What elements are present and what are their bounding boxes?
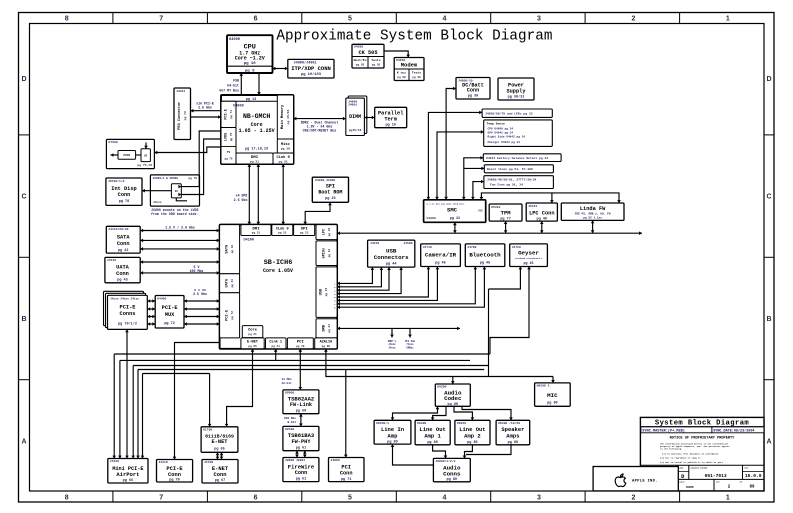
svg-text:CPU U4940 pg 34: CPU U4940 pg 34: [488, 127, 514, 130]
border zone column dividers top: [112, 13, 114, 24]
wire trunk L4 to PCI conn: [345, 370, 347, 458]
svg-text:pg 80: pg 80: [427, 441, 438, 445]
svg-text:pg 60: pg 60: [296, 409, 307, 413]
svg-text:J2000 J2001: J2000 J2001: [285, 458, 305, 462]
svg-text:DIMM: DIMM: [349, 114, 361, 120]
apple logo box: [593, 467, 678, 491]
wire mux chipA output: [111, 154, 119, 156]
svg-text:2.5 Gbs: 2.5 Gbs: [198, 106, 212, 110]
SATA connector J4110: [106, 226, 140, 253]
line out amp 1 U6300: [415, 420, 450, 445]
svg-text:U6240/1: U6240/1: [376, 421, 389, 425]
svg-text:pg 23: pg 23: [300, 232, 309, 235]
ICH UATA cell: [220, 274, 240, 293]
svg-text:pg 44: pg 44: [386, 262, 397, 266]
svg-text:U4100: U4100: [244, 239, 255, 243]
wire LVDS chip to int disp conn: [142, 190, 171, 192]
svg-text:J4000: J4000: [331, 458, 340, 462]
wire mux chipA to chipB: [136, 154, 141, 156]
svg-text:LPC: LPC: [322, 229, 326, 235]
svg-text:TV: TV: [227, 151, 231, 154]
PEG connector J4C01: [174, 88, 191, 140]
svg-text:U2100: U2100: [285, 427, 294, 431]
wire LPC conn to LPC bus: [541, 221, 543, 233]
wire NB to display mux: [154, 147, 221, 153]
svg-text:100 Mbs: 100 Mbs: [190, 269, 204, 273]
wire NB LVDS cell to LVDS chip upper: [181, 131, 221, 187]
svg-text:pg 80: pg 80: [547, 402, 558, 406]
svg-text:D: D: [766, 76, 771, 83]
LVDS inner chip: [171, 184, 181, 198]
SMB bus from ICH: [337, 327, 460, 329]
svg-text:pg 43: pg 43: [117, 279, 128, 283]
svg-text:pg 21: pg 21: [250, 159, 259, 163]
svg-text:Bluetooth: Bluetooth: [469, 251, 501, 258]
svg-text:CKE/ODT/RESET Bus: CKE/ODT/RESET Bus: [303, 128, 337, 132]
svg-text:J4500: J4500: [403, 241, 412, 245]
svg-text:CK 505: CK 505: [358, 50, 377, 56]
svg-text:pg 23: pg 23: [328, 324, 331, 333]
wire LVDS chip loop: [176, 198, 187, 201]
trunk line L3: [133, 365, 488, 367]
svg-text:pg 23: pg 23: [325, 288, 328, 297]
svg-text:AirPort: AirPort: [116, 471, 139, 478]
svg-text:SMC: SMC: [447, 207, 458, 214]
svg-text:Conns: Conns: [443, 470, 461, 477]
svg-text:pg 19: pg 19: [281, 147, 290, 151]
scale sheet row: [676, 479, 678, 491]
svg-text:pg 13: pg 13: [246, 98, 257, 102]
wires FW phy to connector: [296, 451, 298, 458]
svg-text:pg 61: pg 61: [296, 477, 307, 481]
wire trunk to ICH CLnk1: [275, 349, 277, 361]
svg-text:pg 21: pg 21: [248, 333, 257, 336]
svg-text:Codec: Codec: [444, 395, 462, 402]
svg-text:U6350: U6350: [457, 421, 466, 425]
svg-text:4: 4: [443, 494, 447, 501]
svg-text:J4710: J4710: [423, 245, 432, 249]
wire speaker amps to audio conns: [466, 445, 511, 455]
svg-text:667 MT Bus: 667 MT Bus: [219, 89, 239, 93]
svg-text:Amps: Amps: [506, 432, 519, 439]
svg-text:U4300,J4300: U4300,J4300: [315, 178, 335, 182]
svg-text:Conn: Conn: [117, 241, 130, 247]
svg-text:SATA: SATA: [225, 244, 229, 254]
svg-text:J4C01: J4C01: [176, 89, 185, 93]
svg-text:DRAWING NUMBER: DRAWING NUMBER: [691, 466, 709, 469]
svg-text:J4888/49/50/51, J7777/30/34: J4888/49/50/51, J7777/30/34: [487, 178, 537, 182]
ethernet connector J1700: [202, 460, 238, 484]
svg-text:MIC: MIC: [547, 392, 558, 399]
DIMM socket stacked: [348, 96, 367, 133]
LVDS transmitter box U6800: [150, 175, 199, 206]
svg-text:64-bit: 64-bit: [227, 84, 239, 88]
ICH SATA cell: [220, 225, 240, 274]
svg-text:U6200: U6200: [437, 385, 446, 389]
svg-text:pg 45: pg 45: [480, 262, 491, 266]
svg-text:Core 1.05V: Core 1.05V: [263, 268, 293, 274]
svg-text:J6000/1/2/3: J6000/1/2/3: [435, 459, 455, 463]
wire NB to DIMM memory bus: [294, 118, 346, 120]
svg-text:to the following:: to the following:: [660, 448, 682, 451]
svg-text:pg 75: pg 75: [230, 132, 233, 141]
svg-text:J4950/60/70 and LEDs pg 33: J4950/60/70 and LEDs pg 33: [485, 111, 533, 115]
svg-text:UATA: UATA: [116, 265, 130, 271]
svg-text:J4xxx: J4xxx: [153, 201, 162, 204]
firewire phy TSB81BA3 U2100: [283, 426, 319, 450]
firewire link TSB82AA2 U2000: [283, 390, 319, 414]
svg-text:Linda FW: Linda FW: [580, 206, 606, 212]
ICH GPIOs cell: [316, 241, 337, 266]
ICH DMI cell: [241, 225, 271, 236]
wire SPI ROM to ICH: [305, 202, 330, 224]
power supply block: [498, 78, 534, 100]
svg-text:pg 43: pg 43: [231, 279, 234, 288]
svg-text:U5310: U5310: [491, 205, 500, 209]
svg-text:B-S11: B-S11: [287, 421, 296, 424]
svg-text:pg 70: pg 70: [296, 345, 305, 348]
svg-text:J6800/1 & U6800: J6800/1 & U6800: [153, 176, 179, 180]
PCI-E mux U4400: [155, 296, 184, 329]
wire codec to line out amp 2: [454, 406, 472, 420]
azalia audio bus: [326, 349, 553, 377]
svg-text:pg 21: pg 21: [271, 345, 280, 348]
svg-text:Charger U4943 pg 33: Charger U4943 pg 33: [488, 140, 521, 144]
display mux inner chip A: [118, 151, 136, 160]
svg-text:7: 7: [159, 15, 163, 22]
trunk line L1: [114, 353, 490, 355]
svg-text:Geyser: Geyser: [518, 250, 539, 257]
svg-text:1: 1: [726, 15, 730, 22]
wire CK505 to modem: [384, 51, 408, 58]
svg-text:C: C: [21, 194, 26, 201]
svg-text:GPIOs: GPIOs: [322, 248, 326, 259]
wire geyser usb 1: [489, 267, 521, 290]
svg-text:051-7013: 051-7013: [705, 473, 727, 479]
wire Linda FW to LPC bus: [592, 220, 594, 233]
LPC bus line: [337, 232, 642, 234]
svg-text:K осс: K осс: [397, 71, 406, 75]
ICH PCI cell: [287, 338, 313, 349]
svg-text:pg 40: pg 40: [328, 227, 331, 236]
svg-text:7: 7: [159, 494, 163, 501]
Linda FW block: [561, 203, 624, 220]
svg-text:J4601: J4601: [348, 103, 357, 107]
svg-text:89: 89: [749, 486, 755, 490]
wires ICH USB ports to devices: [337, 267, 372, 283]
camera/IR block J4710: [421, 244, 461, 267]
svg-text:2: 2: [631, 15, 635, 22]
svg-text:33 MHz: 33 MHz: [282, 378, 293, 381]
aux connectors strip J4950: [482, 109, 552, 117]
svg-text:pg 74: pg 74: [183, 111, 187, 120]
SMC block U4900: [424, 200, 486, 223]
DC/Batt connector J4800: [456, 78, 490, 100]
svg-text:REV.: REV.: [745, 466, 750, 469]
NB-GMCH DMI cell: [236, 153, 273, 164]
ethernet chip 8111B U1700: [201, 427, 238, 453]
svg-text:SCALE: SCALE: [679, 481, 686, 484]
PCI-E connector J4310: [157, 460, 193, 483]
PCI connector J4000: [329, 458, 365, 482]
svg-text:pg 30/31: pg 30/31: [508, 94, 525, 99]
svg-text:B: B: [21, 316, 26, 323]
svg-text:pg 80: pg 80: [508, 441, 519, 445]
svg-text:ITP/XDP CONN: ITP/XDP CONN: [291, 65, 331, 72]
ICH core cell: [242, 326, 262, 338]
svg-text:SYS: SYS: [478, 210, 483, 213]
ICH E-NET cell: [241, 338, 264, 349]
svg-text:1.5 V / 3.0 Gbs: 1.5 V / 3.0 Gbs: [165, 225, 195, 229]
svg-text:U4944 battery balance Select: U4944 battery balance Select pg 34: [486, 156, 548, 160]
wire y342 to PCI-E conn bottom row: [175, 343, 220, 460]
modem block: [394, 58, 424, 81]
svg-text:pg 78: pg 78: [119, 200, 130, 204]
svg-text:B: B: [766, 316, 771, 323]
svg-text:J4210: J4210: [370, 241, 379, 245]
wire line in amp to codec: [393, 406, 438, 420]
svg-text:pg 72: pg 72: [164, 322, 175, 326]
svg-text:PCI: PCI: [341, 464, 351, 470]
svg-text:Conn: Conn: [118, 192, 131, 198]
svg-text:A: A: [766, 438, 771, 445]
svg-text:Conn: Conn: [168, 472, 181, 478]
svg-text:PCI-E: PCI-E: [162, 305, 178, 311]
SMB tap 1: [391, 328, 393, 337]
svg-text:FW-PHY: FW-PHY: [291, 439, 311, 445]
svg-text:U4000: U4000: [229, 38, 240, 42]
wire SMC to LPC bus: [454, 222, 456, 233]
NB-GMCH northbridge U4000 outer: [221, 95, 294, 164]
svg-text:J4140: J4140: [107, 258, 116, 262]
svg-text:U6290 2: U6290 2: [537, 384, 550, 388]
svg-text:MUX: MUX: [165, 312, 175, 318]
clock generator CK 505: [352, 44, 384, 68]
wire ICH PCI to FW-Link: [299, 349, 301, 390]
wire audio bus to codec: [452, 377, 454, 385]
svg-text:Reset lines pg 51, 57-100: Reset lines pg 51, 57-100: [487, 167, 533, 171]
svg-text:U4200: U4200: [354, 45, 363, 49]
svg-text:pg 67: pg 67: [215, 479, 226, 483]
svg-text:2.5 Gbs: 2.5 Gbs: [193, 292, 207, 296]
svg-text:Right Side U4942 pg 34: Right Side U4942 pg 34: [488, 135, 526, 139]
svg-text:J4xxx J4xxx J41xx: J4xxx J4xxx J41xx: [110, 298, 139, 301]
svg-text:J4700: J4700: [467, 245, 476, 249]
parallel term block: [375, 107, 407, 127]
svg-text:32-bit: 32-bit: [282, 381, 293, 385]
sync master row: [641, 427, 712, 433]
svg-text:SYNC_MASTER:(P+_M2B): SYNC_MASTER:(P+_M2B): [642, 429, 685, 434]
svg-text:pg 70/1/2: pg 70/1/2: [118, 322, 137, 327]
svg-text:Approximate System Block Diagr: Approximate System Block Diagram: [276, 29, 552, 45]
svg-text:3: 3: [537, 494, 541, 501]
svg-text:U4000: U4000: [233, 105, 244, 109]
wires UATA conn to ICH: [140, 261, 219, 263]
svg-text:Modem: Modem: [401, 62, 418, 69]
svg-text:6: 6: [254, 15, 258, 22]
NB-GMCH top strip pg 13: [221, 100, 277, 102]
bluetooth block J4700: [465, 244, 505, 267]
svg-text:J4xxx: J4xxx: [388, 347, 396, 350]
svg-text:Host/In: Host/In: [354, 58, 367, 62]
mini PCI-E airport J4330: [108, 459, 148, 484]
svg-text:FSB: FSB: [233, 79, 239, 83]
svg-text:pg 30: pg 30: [468, 94, 479, 98]
svg-text:U7500: U7500: [109, 140, 118, 144]
NB-GMCH left cell PCI-E: [221, 101, 236, 127]
svg-text:USB: USB: [319, 288, 323, 295]
svg-text:pg 21: pg 21: [252, 232, 261, 235]
svg-text:2.5 Gbs: 2.5 Gbs: [234, 198, 248, 202]
trunk line L4: [138, 369, 484, 371]
svg-text:pg 20: pg 20: [356, 63, 365, 66]
speaker amps U6400: [496, 420, 530, 445]
svg-text:APPLE IND.: APPLE IND.: [632, 480, 658, 484]
ICH CLink 0 cell: [272, 225, 293, 236]
svg-text:Tests: Tests: [412, 71, 421, 75]
svg-text:pg 76: pg 76: [225, 158, 233, 161]
wire codec to speaker amps: [462, 406, 511, 420]
svg-text:2: 2: [631, 494, 635, 501]
SMB tap 2: [409, 328, 411, 337]
svg-text:Temp Sense: Temp Sense: [487, 121, 505, 125]
trunk drops to Mini PCI-E AirPort: [113, 354, 115, 459]
NB-GMCH main memory cell: [277, 95, 293, 139]
svg-text:pg 80: pg 80: [467, 441, 478, 445]
svg-text:pg 90: pg 90: [397, 76, 406, 79]
svg-text:SMBus: SMBus: [406, 347, 414, 350]
svg-text:pg 24: pg 24: [328, 249, 331, 258]
svg-text:J4110/20/30: J4110/20/30: [108, 227, 128, 231]
svg-text:pg 21: pg 21: [278, 232, 287, 235]
TPM block U5310: [489, 204, 522, 221]
svg-text:pg 72: pg 72: [231, 311, 234, 320]
NB-GMCH CLink 0 cell: [273, 153, 294, 164]
svg-text:SB-ICH6: SB-ICH6: [264, 259, 293, 267]
firewire connector J2000: [283, 458, 319, 482]
svg-text:SYNC_DATE:08/23/2004: SYNC_DATE:08/23/2004: [713, 429, 754, 434]
svg-text:pg 80: pg 80: [387, 440, 398, 444]
svg-text:pg 70: pg 70: [169, 479, 180, 483]
ICH AZALIA cell: [315, 338, 337, 349]
svg-text:NOTICE OF PROPRIETARY PROPERTY: NOTICE OF PROPRIETARY PROPERTY: [670, 437, 736, 441]
svg-text:PCI-E: PCI-E: [120, 305, 136, 311]
wire SMC pin2 to temp sensors: [437, 132, 484, 200]
apple logo: [615, 474, 626, 487]
wire CLink NB to ICH: [282, 164, 284, 225]
svg-text:IDE PS, SMB 1, 00, FW: IDE PS, SMB 1, 00, FW: [575, 212, 611, 215]
svg-text:pg 65: pg 65: [248, 345, 257, 348]
svg-text:J6700/1/2: J6700/1/2: [108, 179, 125, 183]
svg-text:LPC Conn: LPC Conn: [529, 210, 554, 216]
svg-text:pg 77: pg 77: [500, 217, 511, 221]
svg-text:pg 71: pg 71: [341, 478, 352, 482]
svg-text:pg 16: pg 16: [385, 124, 396, 128]
svg-text:Conn: Conn: [295, 470, 307, 476]
svg-text:pg 45: pg 45: [524, 261, 534, 265]
temp sensors block: [484, 120, 553, 146]
svg-text:pg 15/16: pg 15/16: [286, 110, 290, 125]
LPC connector J5101: [526, 203, 557, 221]
svg-text:x4 DMI: x4 DMI: [236, 194, 248, 198]
wire amp1 to audio conns: [433, 445, 446, 459]
svg-text:Tests: Tests: [371, 58, 380, 62]
svg-text:pg 80: pg 80: [322, 345, 331, 348]
svg-text:J4310: J4310: [159, 460, 168, 464]
svg-text:pg 20: pg 20: [372, 63, 381, 66]
ICH CLnk 1 cell: [266, 338, 287, 349]
svg-text:800 Mbs: 800 Mbs: [284, 416, 296, 420]
svg-text:Boot ROM: Boot ROM: [318, 189, 342, 195]
svg-text:J5101: J5101: [528, 204, 537, 208]
svg-text:Conns: Conns: [120, 311, 136, 317]
svg-text:GPU U4941 pg 34: GPU U4941 pg 34: [488, 132, 514, 135]
svg-text:CLnk 1: CLnk 1: [269, 340, 282, 345]
wire SMC pin5 to fan conns: [473, 182, 484, 200]
svg-text:pg 33: pg 33: [450, 216, 460, 220]
wire SMC pin4 to battery balance and reset strips: [464, 158, 484, 200]
svg-text:pg 80: pg 80: [448, 403, 459, 407]
svg-text:A: A: [21, 438, 26, 445]
svg-text:3: 3: [537, 15, 541, 22]
svg-text:U4400: U4400: [157, 296, 166, 300]
svg-text:Trackpad &/Keyboard 2: Trackpad &/Keyboard 2: [515, 257, 543, 260]
svg-text:pg 61: pg 61: [296, 446, 307, 450]
svg-text:Conn: Conn: [467, 88, 479, 94]
svg-text:6: 6: [254, 494, 258, 501]
svg-text:15.0.0: 15.0.0: [745, 473, 762, 479]
svg-text:pg 17,18,19: pg 17,18,19: [245, 148, 268, 152]
line out amp 2 U6350: [455, 420, 490, 445]
wire TPM to LPC bus: [505, 221, 507, 233]
ICH LPC cell: [316, 225, 337, 240]
svg-text:TPM: TPM: [501, 209, 512, 216]
ICH SPI cell: [294, 225, 315, 236]
PCI-E connectors stack J4xxx: [104, 291, 144, 325]
svg-text:5: 5: [348, 15, 352, 22]
wire ethernet chip to connector: [217, 452, 219, 459]
svg-text:U1700: U1700: [203, 428, 212, 432]
svg-text:PCI-E: PCI-E: [224, 109, 228, 120]
svg-text:pg 42: pg 42: [118, 249, 129, 253]
border zone row dividers left: [19, 134, 30, 136]
wires mux to ICH PCI-E: [184, 300, 220, 302]
svg-text:pg 10/103: pg 10/103: [301, 72, 322, 77]
title block table lines: [640, 464, 764, 466]
svg-text:B 3,3V 5VA 3GA ADAP Chrg Batt: B 3,3V 5VA 3GA ADAP Chrg Batt: [427, 202, 466, 205]
SB-ICH6 southbridge U4100 outer: [220, 225, 338, 349]
internal display connector J6700: [106, 178, 142, 205]
svg-text:5: 5: [348, 494, 352, 501]
svg-text:PCI-E: PCI-E: [225, 309, 229, 321]
wire FSB CPU to NB-GMCH: [240, 73, 242, 95]
svg-text:pg 40: pg 40: [537, 217, 548, 221]
svg-text:C: C: [766, 194, 771, 201]
svg-text:8: 8: [65, 494, 69, 501]
border zone row dividers right: [764, 134, 774, 136]
svg-text:Connectors: Connectors: [374, 254, 409, 261]
wire PCI-E conns stack down to airport: [126, 329, 128, 458]
svg-text:SIZE: SIZE: [679, 466, 685, 469]
geyser trackpad keyboard block J4720: [510, 244, 548, 267]
svg-text:NB-GMCH: NB-GMCH: [243, 113, 270, 120]
svg-text:pg 10: pg 10: [244, 62, 257, 66]
battery balance select strip U4944: [483, 154, 561, 162]
audio connectors J6000: [433, 458, 470, 481]
svg-text:pg 52 1.1xx: pg 52 1.1xx: [583, 217, 602, 220]
svg-text:LVDS: LVDS: [224, 133, 228, 141]
svg-text:1.05 - 1.25V: 1.05 - 1.25V: [239, 128, 275, 134]
